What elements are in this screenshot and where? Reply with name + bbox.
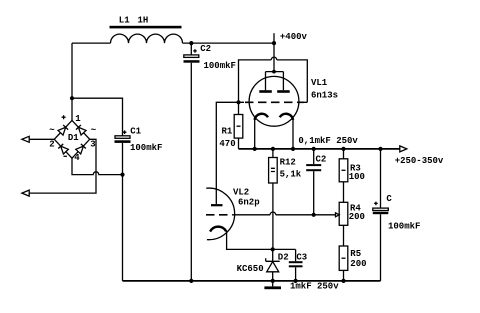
wire: left vertical from top rail down to bridge + vertex	[71, 43, 73, 120]
potentiometer R4	[336, 202, 348, 246]
VL1 anode plate right	[277, 90, 290, 93]
wire: grid loop around tube (right grid to left junction) with hop over +400	[239, 57, 308, 102]
wire: left cathode lead	[254, 120, 256, 149]
svg-text:1H: 1H	[138, 15, 149, 25]
svg-text:D2: D2	[278, 252, 289, 262]
capacitor C1 negative plate (solid)	[115, 140, 131, 143]
svg-text:2: 2	[49, 140, 54, 150]
svg-text:4: 4	[74, 153, 80, 163]
terminal arrow: +250-350v output	[400, 146, 407, 152]
wire: grid stubs solid	[239, 101, 308, 103]
wire: ground rail (bottom)	[123, 280, 381, 282]
svg-text:3: 3	[90, 140, 95, 150]
wire: bridge minus down and right with hop over AC wire	[72, 158, 123, 174]
svg-text:C1: C1	[130, 127, 141, 137]
svg-text:+400v: +400v	[280, 32, 308, 42]
svg-text:200: 200	[349, 212, 365, 222]
diode D1.4 (bottom-right arm)	[76, 144, 86, 154]
node: output cap C top	[378, 147, 382, 151]
svg-text:100mkF: 100mkF	[130, 143, 162, 153]
svg-text:1: 1	[75, 114, 81, 124]
wire: AC input upper from left vertex	[29, 138, 54, 140]
node: R12 top	[271, 147, 275, 151]
svg-text:C2: C2	[200, 44, 211, 54]
resistor R12	[269, 149, 278, 183]
svg-text:6n13s: 6n13s	[311, 91, 338, 101]
svg-text:100mkF: 100mkF	[204, 61, 236, 71]
VL2 grid (dashed)	[206, 214, 232, 216]
label + C	[374, 194, 392, 205]
node: C3 bottom to ground	[294, 279, 298, 283]
capacitor C2 (0.1uF across divider)	[306, 149, 321, 215]
node: C2 bottom to ground	[189, 279, 193, 283]
node: zener/reference node	[271, 247, 275, 251]
ground symbol	[264, 281, 281, 289]
label - (bridge minus)	[64, 155, 67, 157]
diode D1.3 (bottom-left arm)	[58, 144, 68, 154]
label + C2	[193, 44, 211, 54]
svg-text:5,1k: 5,1k	[280, 169, 302, 179]
svg-text:6n2p: 6n2p	[238, 197, 260, 207]
node: junction bridge minus / C1 rail	[120, 173, 124, 177]
wire: +400v stub and anode feed	[273, 33, 275, 71]
resistor R3	[339, 149, 348, 202]
VL1 cathode left hook	[255, 114, 268, 120]
node: R3 top	[341, 147, 345, 151]
bridge rectifier D1 diamond	[54, 120, 89, 158]
VL2 cathode hook	[210, 227, 226, 232]
svg-text:D1: D1	[68, 133, 79, 143]
node: C2 (0.1uF) top	[312, 147, 316, 151]
inductor L1 coil humps	[111, 34, 183, 43]
VL1 anode plate left	[259, 90, 272, 93]
svg-text:100: 100	[349, 172, 365, 182]
node: junction of + rail and C1 branch	[70, 96, 74, 100]
svg-text:VL1: VL1	[311, 78, 328, 88]
label + (bridge plus output)	[62, 115, 66, 119]
svg-text:C3: C3	[296, 252, 307, 262]
svg-text:~: ~	[49, 126, 54, 136]
terminal arrow: AC input upper	[22, 136, 29, 142]
node: right cathode to rail	[291, 147, 295, 151]
node: anode bar junction	[272, 70, 276, 74]
VL1 grid (dashed)	[245, 101, 304, 103]
node: R5 bottom to ground	[341, 279, 345, 283]
capacitor C2 negative plate	[184, 60, 200, 63]
node: VL1 grid junction	[236, 100, 240, 104]
node: C2 bottom on grid wire	[312, 213, 316, 217]
capacitor C (output electrolytic)	[373, 149, 389, 281]
resistor R1	[234, 102, 243, 149]
svg-text:C2: C2	[316, 154, 327, 164]
svg-text:0,1mkF 250v: 0,1mkF 250v	[298, 136, 358, 146]
tube VL1 envelope circle	[249, 76, 299, 126]
diode D1.1 (top-left arm)	[58, 125, 68, 135]
svg-text:L1: L1	[119, 15, 130, 25]
label + C1	[123, 127, 142, 137]
svg-text:C: C	[386, 194, 392, 204]
wire: C2 bottom lead down to ground rail	[190, 63, 192, 281]
wire: right cathode lead	[292, 120, 294, 149]
node: left cathode to rail	[253, 147, 257, 151]
svg-text:100mkF: 100mkF	[388, 221, 420, 231]
label L1 1H	[119, 15, 149, 25]
node: junction C2 top on +400 rail	[189, 41, 193, 45]
wire: grid junction left and down to VL2 anode	[216, 102, 238, 204]
svg-text:+250-350v: +250-350v	[395, 156, 444, 166]
wire: C2 top lead	[190, 43, 192, 55]
wire: VL2 cathode lead down and right to zener node	[227, 231, 296, 250]
inductor L1 iron core bar	[110, 26, 182, 29]
wire: cathode output rail (0,1mkF 250v net)	[239, 148, 400, 150]
node: D2 anode to ground	[271, 279, 275, 283]
VL1 cathode right hook	[280, 114, 293, 120]
svg-text:R1: R1	[222, 126, 233, 136]
capacitor C2 (input filter) positive plate	[184, 55, 199, 58]
svg-text:200: 200	[350, 259, 366, 269]
wire: top +400v rail from corner to tube anode stub	[72, 42, 274, 44]
zener diode D2	[266, 249, 280, 281]
terminal arrow: AC input lower	[22, 190, 29, 196]
capacitor C1 positive plate (hollow)	[115, 136, 130, 139]
svg-text:VL2: VL2	[233, 187, 249, 197]
diode D1.2 (top-right arm)	[76, 125, 86, 135]
svg-text:R5: R5	[350, 249, 361, 259]
wire: AC input lower from right vertex (right, down, left)	[29, 139, 96, 193]
wire: C1 bottom down to ground rail	[122, 143, 124, 281]
svg-text:~: ~	[91, 126, 96, 136]
resistor R5	[339, 246, 348, 281]
node: +400v junction	[272, 41, 276, 45]
wire: R12 bottom down to VL2 cathode node	[272, 183, 274, 249]
svg-text:470: 470	[219, 139, 235, 149]
svg-text:KC650: KC650	[237, 264, 264, 274]
capacitor C3	[289, 249, 303, 281]
wire: VL2 grid wire to R4 wiper with hop over R12 lead	[232, 212, 335, 215]
VL1 anode joining bar	[266, 72, 284, 91]
svg-text:1mkF 250v: 1mkF 250v	[290, 282, 339, 292]
svg-text:R12: R12	[280, 157, 296, 167]
VL2 anode plate	[211, 204, 223, 206]
tube VL2 envelope (half circle)	[206, 188, 234, 240]
wire: branch to C1 top	[72, 98, 123, 136]
